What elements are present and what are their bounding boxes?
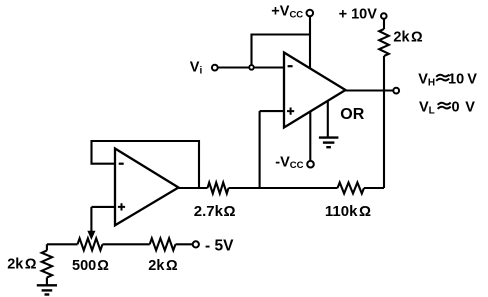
U2 noninverting input plus sign — [118, 203, 125, 210]
wire pot to 2k bottom resistor — [103, 243, 150, 245]
ground wire under U1 — [327, 101, 329, 137]
terminal -Vcc open circle — [307, 161, 314, 168]
wire U2 feedback loop — [92, 141, 200, 188]
resistor 2k bottom zigzag — [150, 238, 176, 250]
svg-text:2kΩ: 2kΩ — [7, 257, 37, 273]
U1 inverting input minus sign — [288, 65, 293, 67]
wire +Vcc down to U1 top edge — [309, 16, 311, 68]
wire mid row from U2 output to 2.7k — [179, 187, 208, 189]
wire corner down into left 2k resistor — [46, 244, 48, 250]
potentiometer wiper arrowhead — [88, 231, 95, 239]
wire U1 + input down to mid node — [259, 111, 261, 188]
wire pull-up resistor down through output node to 110k — [383, 56, 385, 188]
terminal +Vcc open circle — [307, 10, 314, 17]
resistor 2k left vertical zigzag — [42, 251, 52, 278]
wire U2 + input horizontal — [92, 206, 116, 208]
wire U1 output to output terminal — [346, 89, 394, 91]
U1 noninverting input plus sign — [287, 108, 294, 115]
svg-text:- 5V: - 5V — [205, 237, 234, 254]
svg-text:V: V — [467, 71, 477, 87]
terminal output open circle — [393, 88, 399, 94]
label VH approx sign — [436, 75, 449, 81]
op-amp U1 comparator triangle — [284, 53, 346, 128]
svg-text:+VCC: +VCC — [271, 4, 303, 21]
wire left 2k to ground — [46, 278, 48, 286]
wire U1 bottom edge down to -Vcc terminal — [309, 112, 311, 161]
terminal +10V open circle — [381, 13, 387, 19]
node junction circle at Vi node — [249, 65, 254, 70]
svg-text:V: V — [465, 99, 475, 115]
svg-text:Vi: Vi — [190, 59, 203, 76]
svg-text:0: 0 — [452, 99, 460, 115]
label VL approx sign — [438, 103, 451, 109]
potentiometer 500 zigzag — [78, 238, 103, 250]
resistor 2.7k zigzag — [208, 183, 229, 194]
wire U2 + input down to potentiometer wiper — [90, 207, 92, 233]
terminal -5V open circle — [193, 241, 199, 247]
op-amp U2 triangle — [115, 149, 179, 226]
wire 110k to riser — [364, 187, 384, 189]
svg-text:2.7kΩ: 2.7kΩ — [194, 203, 236, 220]
svg-text:-VCC: -VCC — [275, 155, 303, 172]
terminal Vi open circle — [212, 65, 218, 71]
resistor 2k pull-up zigzag — [379, 29, 389, 56]
svg-text:OR: OR — [340, 106, 364, 123]
U2 inverting input minus sign — [119, 163, 124, 165]
ground symbol bottom left — [37, 284, 57, 286]
wire loop from Vi node up and over to +Vcc line — [252, 35, 311, 66]
svg-text:2kΩ: 2kΩ — [148, 258, 178, 274]
wire +10V to pull-up resistor — [383, 19, 385, 29]
wire bottom row left corner from 2k to pot — [47, 243, 78, 245]
wire U1 noninverting input horizontal — [260, 110, 284, 112]
svg-text:2kΩ: 2kΩ — [393, 29, 423, 45]
svg-text:10: 10 — [448, 71, 464, 87]
ground symbol under U1 — [319, 136, 339, 138]
wire 2.7k to 110k — [229, 187, 338, 189]
svg-text:VL: VL — [419, 99, 435, 116]
svg-text:VH: VH — [418, 71, 435, 88]
svg-text:500Ω: 500Ω — [72, 258, 109, 274]
wire 2k bottom to -5V terminal — [176, 243, 193, 245]
svg-text:110kΩ: 110kΩ — [325, 203, 371, 220]
wire Vi terminal to U1 inverting input — [218, 66, 284, 68]
resistor 110k zigzag — [338, 183, 365, 194]
svg-text:+ 10V: + 10V — [339, 7, 378, 23]
